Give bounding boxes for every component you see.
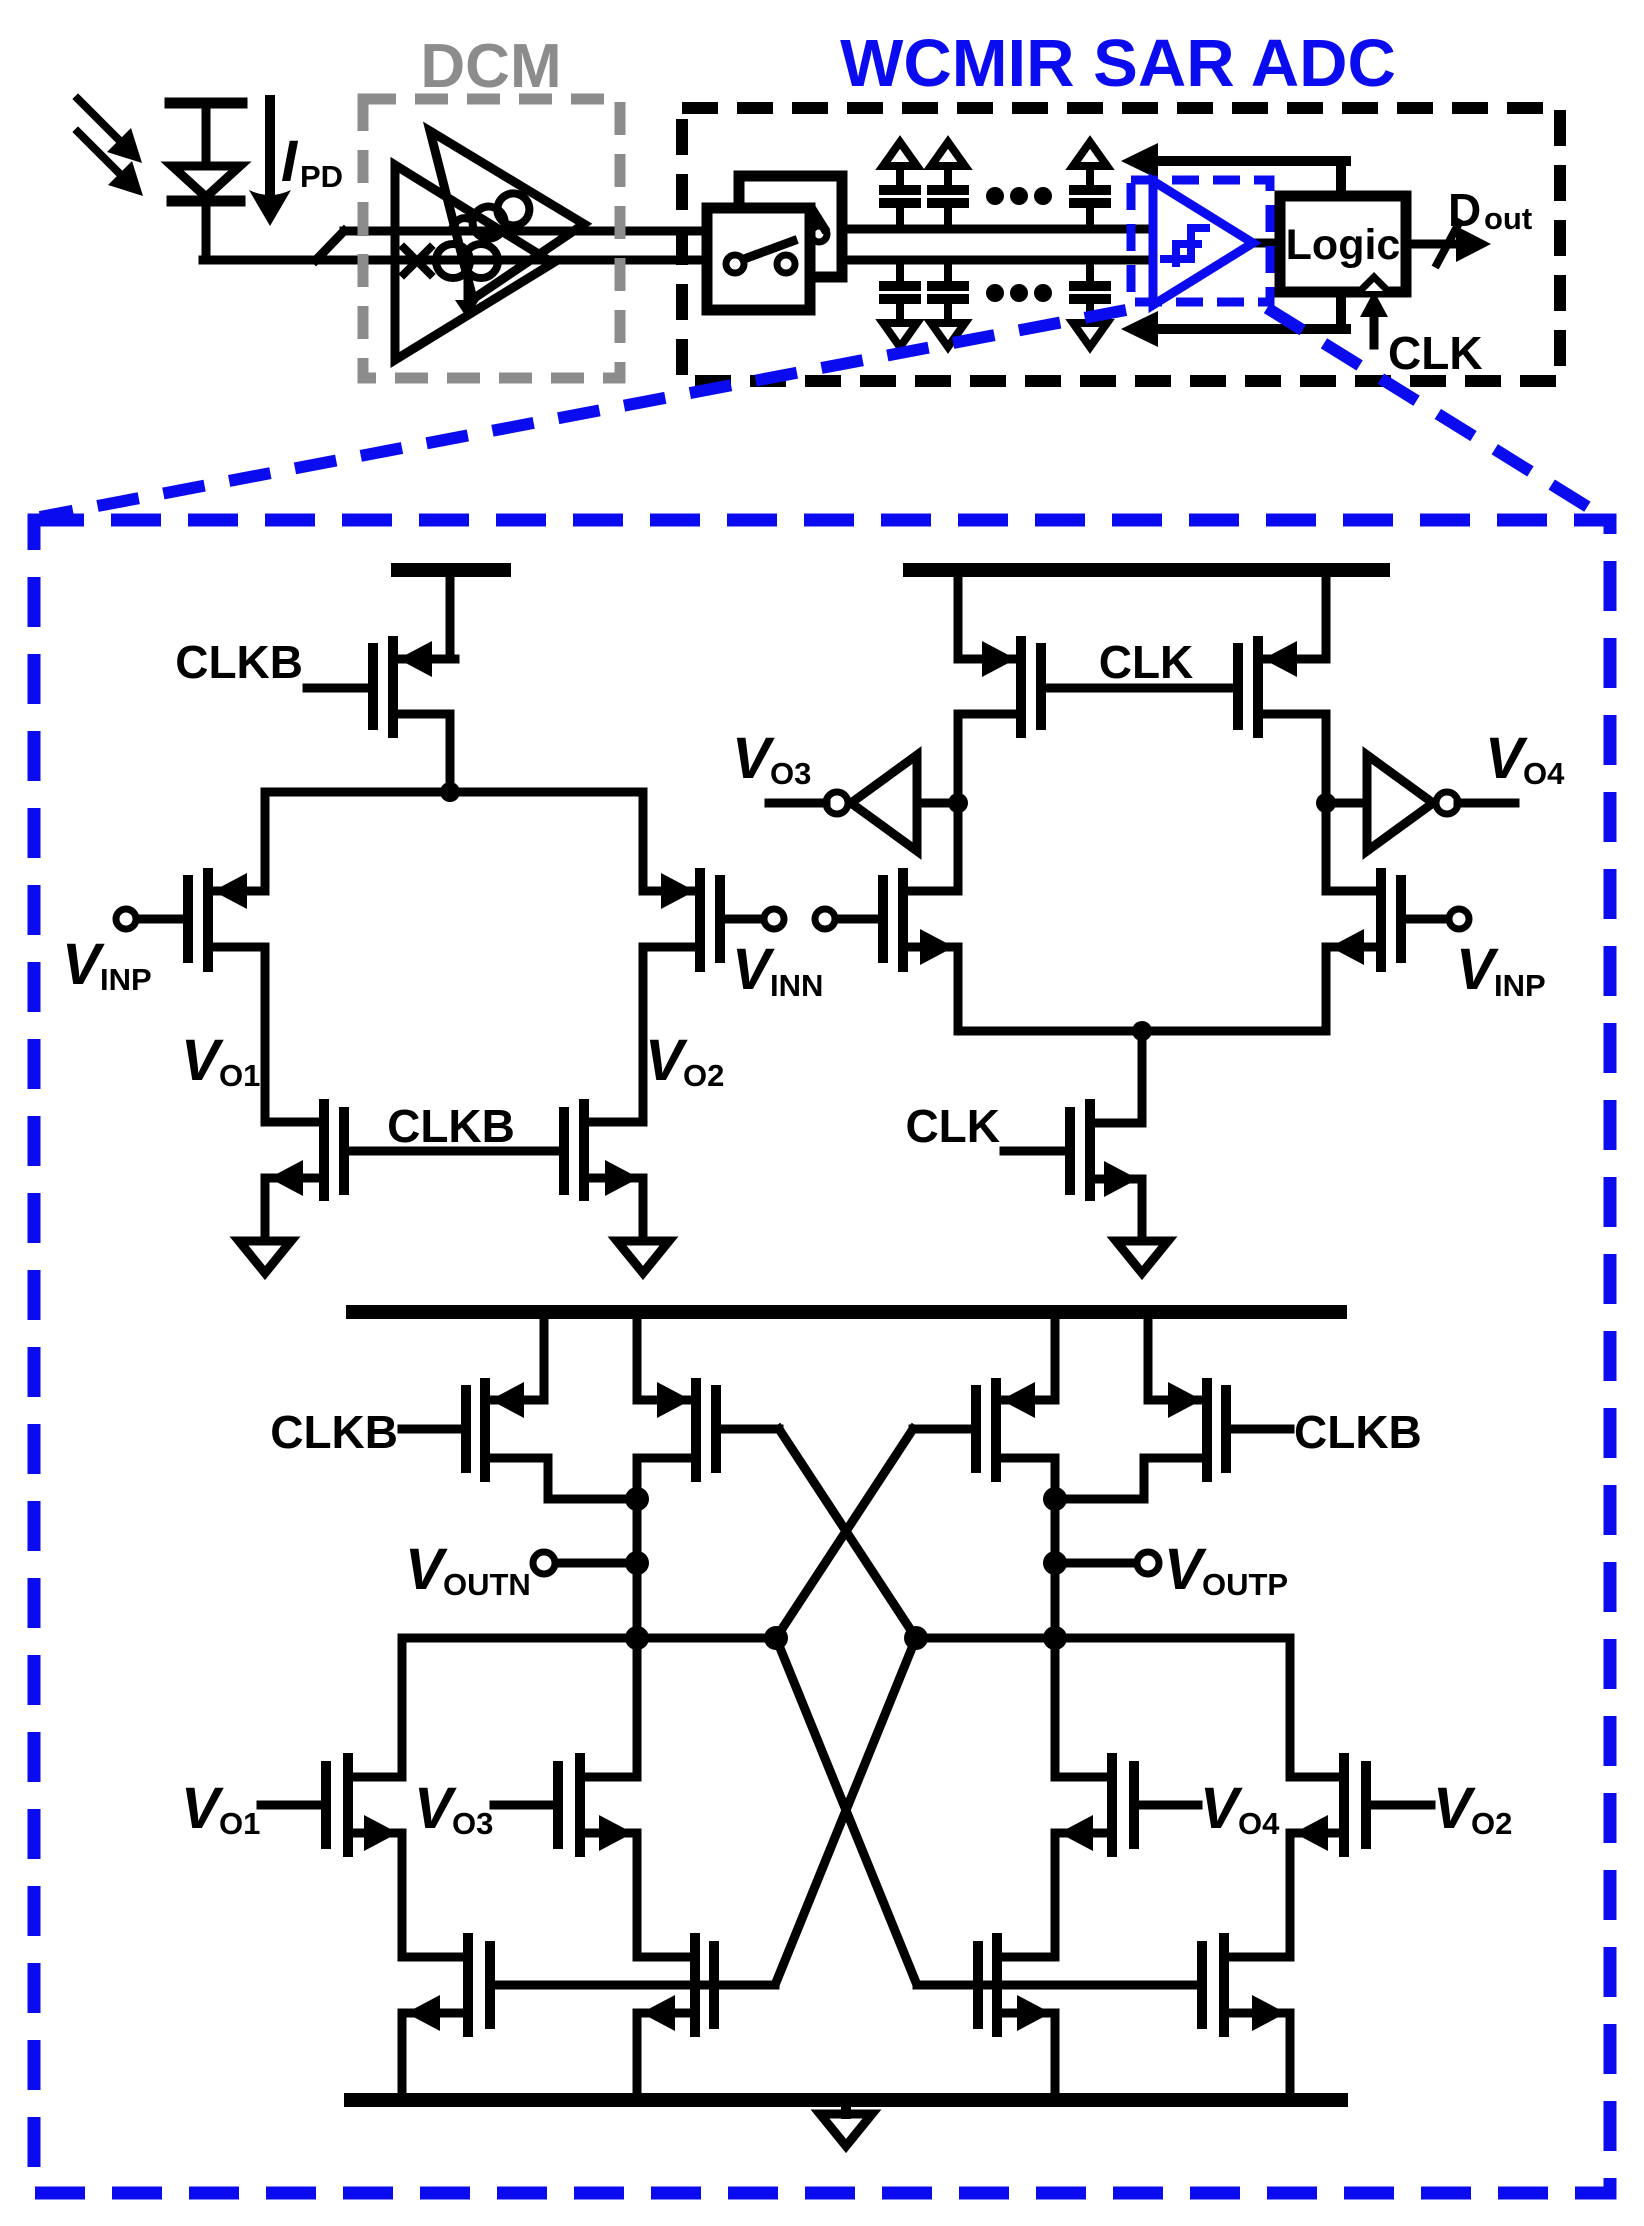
label VOUTN xyxy=(405,1537,531,1602)
blue zoom diagonal right xyxy=(1267,308,1604,517)
ground right xyxy=(617,1241,669,1273)
current arrow I_PD xyxy=(249,100,291,226)
svg-text:O4: O4 xyxy=(1238,1806,1280,1841)
node VO2 wire xyxy=(639,792,648,1122)
capacitor C1 top xyxy=(883,142,917,229)
transistor M6 NMOS CLKB left xyxy=(265,1104,559,1240)
svg-text:CLK: CLK xyxy=(1388,327,1483,379)
capacitor C3 top xyxy=(1073,142,1107,229)
transistor M20 NMOS VO2 xyxy=(1290,1758,1431,1957)
capacitor C5 bottom xyxy=(931,260,965,347)
svg-text:INP: INP xyxy=(100,962,152,997)
label VO4 stage2 xyxy=(1200,1776,1280,1841)
svg-text:out: out xyxy=(1484,201,1532,236)
transistor M16 PMOS CLKB right xyxy=(1055,1382,1290,1499)
capacitor C2 top xyxy=(931,142,965,229)
junction dot xyxy=(440,782,460,802)
CLK arrow xyxy=(1360,291,1388,345)
photodiode D1 xyxy=(170,103,242,259)
port VOUTN xyxy=(533,1552,637,1574)
label Dout xyxy=(1448,184,1532,236)
svg-text:Logic: Logic xyxy=(1286,221,1401,269)
svg-text:V: V xyxy=(181,1776,224,1841)
Dout wire xyxy=(1406,223,1491,264)
transistor M14 PMOS cross left xyxy=(637,1382,779,1477)
svg-text:CLK: CLK xyxy=(905,1100,1000,1152)
DCM amplifier back triangle xyxy=(430,131,584,299)
transistor M19 NMOS VO4 xyxy=(1055,1758,1198,1957)
svg-text:O2: O2 xyxy=(1471,1806,1512,1841)
node VOUTN vertical xyxy=(625,1458,649,1777)
svg-text:V: V xyxy=(1164,1537,1207,1602)
wire photodiode to amp (lower) xyxy=(203,256,707,265)
transistor M1 input PMOS VINP xyxy=(116,873,265,967)
transistor M21 NMOS latch bottom far-left xyxy=(402,1938,709,2100)
wire upper input/output bus xyxy=(344,227,707,236)
transistor M24 NMOS latch bottom far-right xyxy=(1202,1938,1290,2100)
comparator output wire xyxy=(1253,239,1287,248)
tail node rail xyxy=(958,947,1326,1123)
svg-text:CLK: CLK xyxy=(1099,636,1194,688)
comparator dashed box xyxy=(1131,180,1270,302)
svg-text:V: V xyxy=(645,1028,688,1093)
label VINP xyxy=(62,932,152,997)
cross wire upper right to left node xyxy=(776,1429,913,1638)
svg-text:O1: O1 xyxy=(219,1058,260,1093)
wire diagonal rise xyxy=(316,231,344,260)
light arrow 2 xyxy=(78,132,143,196)
dots top array xyxy=(986,187,1052,205)
svg-text:OUTN: OUTN xyxy=(443,1567,531,1602)
svg-text:O2: O2 xyxy=(683,1058,724,1093)
capacitor C4 bottom xyxy=(883,260,917,347)
ground symbol stage2 xyxy=(820,2107,872,2146)
cross wire lower right gates to right node xyxy=(776,1638,917,1985)
svg-text:V: V xyxy=(732,726,775,791)
node VOUTP vertical xyxy=(1043,1458,1067,1777)
svg-text:CLKB: CLKB xyxy=(270,1406,398,1458)
label I_PD xyxy=(281,129,343,194)
blue zoom diagonal left xyxy=(40,310,1126,517)
VDD rail stage2 xyxy=(353,1305,1340,1319)
DCM dashed box xyxy=(363,99,620,378)
feedback vertical xyxy=(1336,161,1346,329)
svg-text:O3: O3 xyxy=(770,756,811,791)
transistor M18 NMOS VO3 xyxy=(494,1758,637,1957)
label VINP right xyxy=(1456,937,1546,1003)
svg-text:WCMIR SAR ADC: WCMIR SAR ADC xyxy=(840,26,1396,101)
node VO3 wire xyxy=(948,714,968,891)
svg-text:V: V xyxy=(732,937,775,1002)
svg-text:O4: O4 xyxy=(1523,756,1565,791)
svg-text:INN: INN xyxy=(770,968,823,1003)
transistor M22 NMOS latch bottom mid-left xyxy=(637,1938,775,2100)
label VOUTP xyxy=(1164,1537,1288,1602)
wire stems xyxy=(958,577,1326,659)
svg-text:O1: O1 xyxy=(219,1806,260,1841)
svg-text:V: V xyxy=(1485,726,1528,791)
transistor M15 PMOS cross right xyxy=(913,1382,1055,1477)
inverter VO3 xyxy=(769,755,958,851)
svg-text:CLKB: CLKB xyxy=(175,636,303,688)
dots bottom array xyxy=(986,284,1052,302)
capacitor C6 bottom xyxy=(1073,260,1107,347)
transistor M10 input NMOS VINN xyxy=(815,873,958,967)
svg-text:PD: PD xyxy=(300,159,343,194)
port VOUTP xyxy=(1055,1552,1159,1574)
wire xyxy=(261,792,270,891)
svg-text:INP: INP xyxy=(1494,968,1546,1003)
label VO1 xyxy=(181,1028,260,1093)
svg-text:O3: O3 xyxy=(452,1806,493,1841)
latch node rail right xyxy=(904,1626,1290,1650)
VDD rail stage1 left xyxy=(398,563,504,577)
transistor M7 NMOS CLKB right xyxy=(564,1104,643,1240)
comparator U1 triangle xyxy=(1153,181,1253,305)
transistor M13 PMOS CLKB left xyxy=(402,1382,637,1499)
transistor M5 tail PMOS CLKB xyxy=(307,641,455,792)
node VO4 wire xyxy=(1316,714,1336,891)
wire VDD stem xyxy=(446,577,455,659)
ground rail stage2 xyxy=(351,2093,1341,2107)
svg-text:D: D xyxy=(1448,184,1481,236)
DAC feedback wire bottom xyxy=(1121,311,1346,347)
node VO1 wire xyxy=(261,947,270,1122)
gate wire bottom right pair xyxy=(983,1981,1197,1990)
svg-text:OUTP: OUTP xyxy=(1202,1567,1288,1602)
label VO3 stage2 xyxy=(414,1776,493,1841)
DAC feedback wire top xyxy=(1121,143,1346,179)
node rail sources M1 M2 xyxy=(265,788,643,797)
transistor M17 NMOS VO1 xyxy=(261,1758,402,1957)
svg-text:V: V xyxy=(414,1776,457,1841)
latch node rail left xyxy=(402,1626,788,1650)
switch block front square xyxy=(707,208,810,310)
wire stems stage2 xyxy=(544,1319,1148,1400)
top bus wire xyxy=(842,225,1153,234)
transistor M12 tail NMOS CLK xyxy=(1004,1104,1142,1240)
label VO3 top xyxy=(732,726,811,791)
svg-text:V: V xyxy=(405,1537,448,1602)
svg-text:V: V xyxy=(1200,1776,1243,1841)
inverter VO4 xyxy=(1326,755,1515,851)
wire left branch xyxy=(398,1638,407,1777)
svg-text:V: V xyxy=(1456,937,1499,1002)
svg-text:CLKB: CLKB xyxy=(1294,1406,1422,1458)
svg-text:V: V xyxy=(181,1028,224,1093)
WCMIR SAR ADC dashed box xyxy=(682,108,1560,381)
svg-text:CLKB: CLKB xyxy=(387,1100,515,1152)
svg-text:V: V xyxy=(1433,1776,1476,1841)
light arrow 1 xyxy=(78,99,142,163)
svg-text:I: I xyxy=(281,129,299,194)
transistor M23 NMOS latch bottom mid-right xyxy=(917,1938,1055,2100)
transistor M2 input PMOS VINN xyxy=(643,873,784,967)
transistor M11 input NMOS VINP xyxy=(1326,873,1469,967)
VDD rail stage1 right xyxy=(910,563,1383,577)
ground tail xyxy=(1116,1241,1168,1273)
label VO2 xyxy=(645,1028,724,1093)
label VO4 top xyxy=(1485,726,1565,791)
transistor M9 PMOS CLK right xyxy=(1238,641,1326,733)
Logic block xyxy=(1280,196,1406,292)
label VO2 stage2 xyxy=(1433,1776,1512,1841)
label VO1 stage2 xyxy=(181,1776,260,1841)
svg-text:V: V xyxy=(62,932,105,997)
cross wire lower left gates to left node xyxy=(775,1638,916,1985)
wire right branch xyxy=(1286,1638,1295,1777)
label VINN xyxy=(732,937,823,1003)
ground left xyxy=(239,1241,291,1273)
cross wire upper left to right node xyxy=(779,1429,916,1638)
bottom bus wire xyxy=(842,256,1153,265)
transistor M8 PMOS CLK left xyxy=(958,641,1233,733)
switch block back square xyxy=(739,176,842,277)
svg-text:DCM: DCM xyxy=(420,32,561,101)
DCM amplifier front triangle xyxy=(395,165,553,360)
schematic dashed box xyxy=(34,520,1610,2193)
